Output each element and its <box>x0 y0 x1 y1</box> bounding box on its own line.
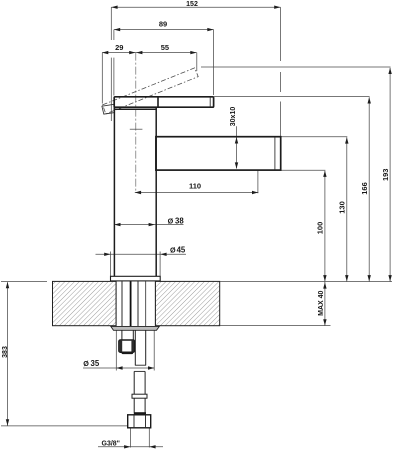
svg-text:Ø: Ø <box>170 246 176 255</box>
svg-text:G3/8": G3/8" <box>102 440 121 447</box>
svg-text:193: 193 <box>381 169 390 182</box>
svg-text:110: 110 <box>189 181 201 190</box>
svg-text:166: 166 <box>360 182 369 195</box>
svg-text:35: 35 <box>91 359 100 368</box>
svg-text:MAX 40: MAX 40 <box>318 290 325 315</box>
svg-text:152: 152 <box>186 1 198 8</box>
svg-text:100: 100 <box>316 222 325 235</box>
svg-text:38: 38 <box>175 217 184 226</box>
svg-text:Ø: Ø <box>168 217 174 226</box>
svg-text:383: 383 <box>2 346 9 358</box>
svg-text:Ø: Ø <box>83 359 89 368</box>
svg-text:45: 45 <box>177 246 186 255</box>
svg-text:29: 29 <box>115 43 123 52</box>
svg-text:130: 130 <box>338 201 347 214</box>
svg-text:55: 55 <box>161 43 169 52</box>
svg-text:30x10: 30x10 <box>230 107 237 127</box>
svg-text:89: 89 <box>159 20 167 29</box>
